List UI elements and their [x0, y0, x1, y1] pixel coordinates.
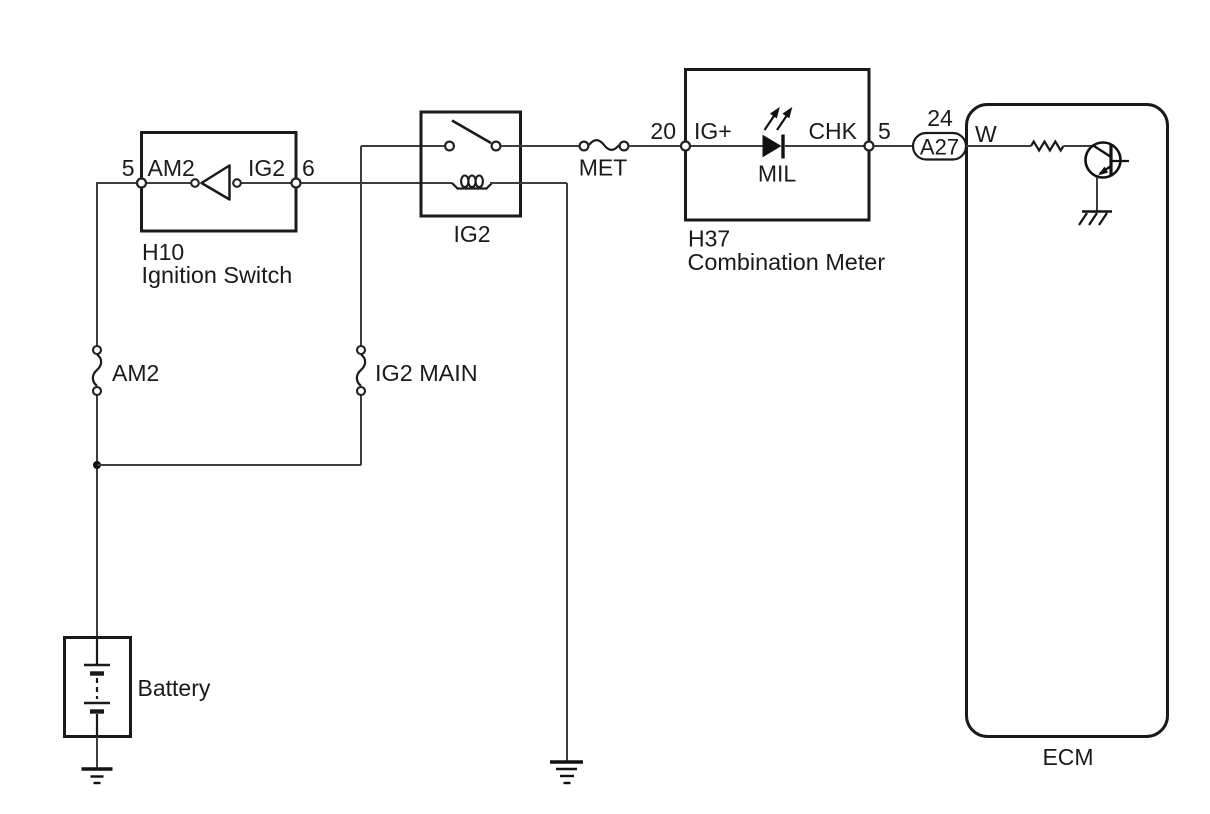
net label IG+ — [694, 118, 732, 144]
svg-text:A27: A27 — [920, 135, 959, 160]
svg-text:ECM: ECM — [1042, 744, 1093, 770]
terminal 5 of H37 — [865, 142, 874, 151]
wire transistor emitter to ECM ground — [1096, 177, 1098, 211]
svg-text:AM2: AM2 — [112, 360, 159, 386]
svg-text:MET: MET — [579, 155, 628, 181]
svg-text:IG+: IG+ — [694, 118, 732, 144]
pin label 24 — [927, 105, 953, 131]
junction node battery branch — [93, 461, 101, 469]
wire vertical branch at x361 from relay switch down to junction — [360, 146, 362, 465]
ignition switch wiper triangle — [202, 166, 230, 200]
terminal 20 of H37 — [681, 142, 690, 151]
component label ECM — [1042, 744, 1093, 770]
pin label 6 — [302, 155, 315, 181]
wire from A27 into ECM to resistor — [966, 145, 1031, 147]
wire from wiper to terminal 6 — [242, 182, 292, 184]
pin label 5 — [122, 155, 135, 181]
connector A27 oval — [913, 133, 966, 160]
resistor inside ECM — [1031, 142, 1063, 151]
wire from MET fuse to H37 terminal 20 — [629, 145, 681, 147]
svg-text:Ignition Switch: Ignition Switch — [142, 262, 293, 288]
wire junction to IG2 MAIN branch — [97, 464, 361, 466]
svg-text:AM2: AM2 — [148, 155, 195, 181]
relay IG2 box — [421, 112, 521, 216]
LED emission arrow 2 — [777, 108, 792, 130]
wire from resistor to transistor base — [1064, 145, 1095, 147]
svg-text:5: 5 — [122, 155, 135, 181]
svg-text:IG2: IG2 — [248, 155, 285, 181]
svg-text:6: 6 — [302, 155, 315, 181]
svg-text:CHK: CHK — [808, 118, 857, 144]
fuse IG2 MAIN — [357, 346, 365, 395]
combination meter box H37 — [686, 70, 870, 221]
wire from branch to relay switch contact — [361, 145, 444, 147]
pin label 5 (H37 right) — [878, 118, 891, 144]
value label AM2 (fuse) — [112, 360, 159, 386]
svg-text:20: 20 — [650, 118, 676, 144]
fuse MET — [580, 140, 629, 150]
battery cells — [84, 637, 110, 737]
relay coil — [452, 176, 492, 189]
value label MIL — [758, 161, 797, 187]
relay switch left contact — [445, 142, 454, 151]
value label MET — [579, 155, 628, 181]
component label H10 Ignition Switch — [142, 239, 293, 288]
wire battery to ground — [96, 737, 98, 768]
svg-text:MIL: MIL — [758, 161, 797, 187]
value label IG2 MAIN (fuse) — [375, 360, 478, 386]
terminal 6 of H10 — [292, 179, 301, 188]
svg-text:W: W — [975, 121, 997, 147]
battery box — [65, 638, 131, 737]
component label H37 Combination Meter — [688, 226, 886, 276]
LED emission arrow 1 — [765, 108, 780, 130]
net label AM2 (H10 terminal name) — [148, 155, 195, 181]
battery ground — [82, 769, 113, 783]
net label CHK — [808, 118, 857, 144]
wire color label W — [975, 121, 997, 147]
svg-text:H37: H37 — [688, 226, 730, 252]
relay coil ground — [550, 762, 583, 783]
pin label 20 — [650, 118, 676, 144]
component label IG2 (relay) — [453, 221, 490, 247]
wire inside H10 from terminal 5 to contact — [146, 182, 192, 184]
switch contact node inside H10 — [191, 179, 199, 187]
wire left vertical from terminal 5 down to battery — [96, 182, 98, 637]
transistor Q (ECM output) — [1086, 143, 1130, 178]
svg-text:Combination Meter: Combination Meter — [688, 249, 886, 275]
ECM chassis ground — [1079, 212, 1112, 226]
relay switch blade — [452, 121, 491, 144]
wire from terminal 6 to relay coil — [301, 182, 452, 184]
wire from H37 terminal 5 to connector A27 — [874, 145, 915, 147]
small circle on switch wiper — [233, 179, 241, 187]
wire from relay right contact to MET fuse — [501, 145, 579, 147]
svg-text:5: 5 — [878, 118, 891, 144]
wire from battery branch to ignition switch terminal 5 — [97, 182, 136, 184]
svg-text:IG2: IG2 — [453, 221, 490, 247]
relay switch right contact — [492, 142, 501, 151]
ECM box — [967, 105, 1168, 737]
wire inside H37 from LED to terminal 5 — [785, 145, 864, 147]
ignition switch box H10 — [142, 133, 297, 232]
LED MIL diode — [763, 135, 783, 159]
svg-text:24: 24 — [927, 105, 953, 131]
svg-text:IG2 MAIN: IG2 MAIN — [375, 360, 478, 386]
wire inside H37 from terminal 20 to LED — [691, 145, 763, 147]
wire vertical drop to relay ground — [566, 183, 568, 761]
net label IG2 (H10 terminal name) — [248, 155, 285, 181]
terminal 5 of H10 — [137, 179, 146, 188]
component label Battery — [138, 675, 211, 701]
wire from relay coil to ground drop — [490, 182, 567, 184]
svg-text:Battery: Battery — [138, 675, 211, 701]
fuse AM2 — [93, 346, 101, 395]
